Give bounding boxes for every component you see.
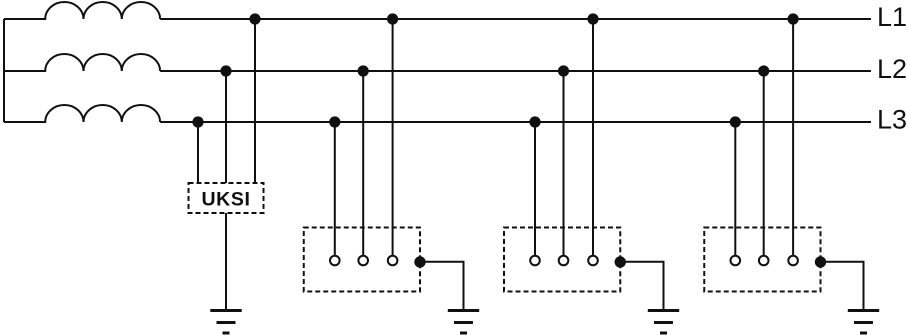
junction UKSI tap on L3 — [192, 116, 203, 127]
wire arrester2 tap from L2 — [563, 71, 565, 256]
wire UKSI to ground — [225, 213, 227, 311]
junction arrester1 tap on L3 — [329, 116, 340, 127]
svg-text:L3: L3 — [877, 105, 907, 135]
device UKSI — [189, 183, 264, 213]
svg-text:UKSI: UKSI — [202, 189, 251, 211]
wire arrester3 tap from L1 — [792, 19, 794, 256]
wire arrester3 tap from L3 — [734, 122, 736, 256]
svg-text:L2: L2 — [877, 54, 907, 84]
ground under UKSI — [210, 311, 241, 334]
terminal arrester2 pin3 — [588, 256, 598, 266]
wire arrester1 tap from L1 — [392, 19, 394, 256]
terminal arrester2 pin2 — [559, 256, 569, 266]
box arrester2 — [504, 228, 620, 292]
junction arrester3 tap on L1 — [788, 13, 799, 24]
wire arrester2 to ground — [620, 262, 663, 311]
box arrester3 — [704, 228, 820, 292]
wire UKSI tap from L2 — [225, 71, 227, 183]
junction arrester3 tap on L3 — [730, 116, 741, 127]
junction arrester1 tap on L1 — [387, 13, 398, 24]
junction arrester1 output node — [414, 256, 425, 267]
wire left bus vertical — [3, 19, 5, 122]
terminal arrester1 pin3 — [388, 256, 398, 266]
wire arrester2 tap from L1 — [592, 19, 594, 256]
wire L3 — [160, 121, 871, 123]
wire arrester1 tap from L2 — [362, 71, 364, 256]
wire arrester3 to ground — [821, 262, 864, 311]
terminal arrester3 pin2 — [759, 256, 769, 266]
ground under arrester1 — [448, 311, 479, 334]
terminal arrester3 pin3 — [788, 256, 798, 266]
junction arrester2 tap on L3 — [529, 116, 540, 127]
inductor phase L1 — [4, 2, 160, 19]
terminal arrester2 pin1 — [530, 256, 540, 266]
ground under arrester2 — [648, 311, 679, 334]
junction arrester3 tap on L2 — [758, 65, 769, 76]
wire UKSI tap from L3 — [197, 122, 199, 183]
terminal arrester1 pin1 — [330, 256, 340, 266]
junction arrester2 output node — [615, 256, 626, 267]
junction arrester3 output node — [815, 256, 826, 267]
junction arrester2 tap on L1 — [587, 13, 598, 24]
ground under arrester3 — [848, 311, 879, 334]
terminal arrester1 pin2 — [358, 256, 368, 266]
wire arrester1 to ground — [420, 262, 464, 311]
junction arrester2 tap on L2 — [558, 65, 569, 76]
terminal arrester3 pin1 — [731, 256, 741, 266]
junction UKSI tap on L2 — [220, 65, 231, 76]
wire L1 — [160, 18, 871, 20]
inductor phase L2 — [4, 54, 160, 71]
junction UKSI tap on L1 — [249, 13, 260, 24]
wire arrester3 tap from L2 — [763, 71, 765, 256]
junction arrester1 tap on L2 — [358, 65, 369, 76]
wire arrester1 tap from L3 — [334, 122, 336, 256]
wire L2 — [160, 70, 871, 72]
inductor phase L3 — [4, 105, 160, 122]
svg-text:L1: L1 — [877, 2, 907, 32]
wire arrester2 tap from L3 — [534, 122, 536, 256]
wire UKSI tap from L1 — [254, 19, 256, 183]
box arrester1 — [304, 228, 420, 292]
